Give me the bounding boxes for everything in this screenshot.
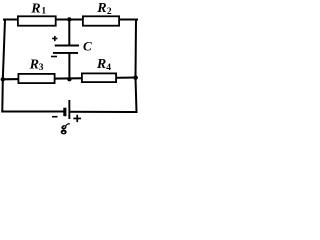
wire bottom rail right [70,111,137,113]
svg-text:3: 3 [39,63,44,73]
wire capacitor stub bottom [68,53,70,79]
resistor R3 [18,74,54,83]
battery positive plate (tall thin) [68,100,70,119]
wire middle rail [3,78,136,80]
node junction dot middle (between R3 and R4) [67,77,71,81]
battery plus sign [73,115,81,122]
wire right rail [136,20,137,113]
svg-text:R: R [96,57,106,72]
battery EMF label script-E [61,124,70,135]
capacitor minus sign [51,56,57,58]
battery minus sign [52,116,58,118]
svg-text:2: 2 [107,7,112,17]
node junction dot top (between R1 and R2) [67,17,71,21]
wire capacitor stub top [68,19,70,45]
svg-text:4: 4 [106,63,111,73]
svg-text:C: C [83,39,92,54]
wire left rail [2,20,5,112]
svg-text:1: 1 [41,6,46,16]
resistor R1 [18,16,56,25]
wire bottom rail left [2,111,63,113]
svg-text:R: R [30,2,40,17]
svg-text:R: R [96,1,106,16]
resistor R4 [82,73,116,82]
battery negative plate (short thick) [63,108,66,117]
capacitor C top plate [55,45,79,47]
wire top rail [4,19,137,21]
capacitor C bottom plate [53,52,78,54]
node junction dot left (middle rail to left rail) [1,77,5,81]
node junction dot right (middle rail to right rail) [133,75,138,80]
resistor R2 [83,16,119,25]
capacitor plus sign [52,36,57,41]
svg-text:R: R [29,58,39,73]
